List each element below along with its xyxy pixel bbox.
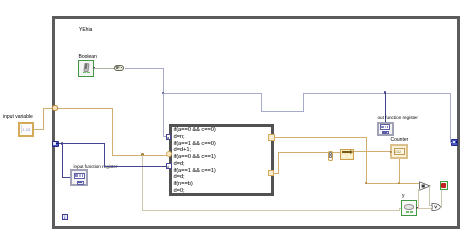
- out function register label: [378, 115, 418, 120]
- wire equal out down to or: [429, 186, 430, 205]
- tunnel a: [166, 134, 172, 140]
- formula node text: [174, 127, 216, 195]
- tunnel input variable (left border): [52, 105, 58, 111]
- junction SR wire: [61, 142, 64, 145]
- input variable label: [3, 115, 33, 120]
- iteration terminal i: [62, 214, 68, 220]
- wire up to counter: [399, 158, 400, 183]
- junction d corner: [365, 182, 368, 185]
- shift register right: [451, 139, 458, 146]
- conversion node: [340, 149, 354, 160]
- Boolean control terminal: [78, 60, 94, 77]
- while loop border: [52, 16, 460, 229]
- wire main top horizontal seg2: [303, 93, 451, 94]
- Counter indicator: [390, 144, 408, 159]
- shift register left: [52, 141, 59, 148]
- wire navy down to out function register: [385, 93, 386, 122]
- wire dip bottom: [261, 111, 304, 112]
- Boolean control label: [79, 55, 97, 60]
- Boolean-to-(0,1) node: [114, 65, 124, 71]
- input function register label: [74, 164, 118, 169]
- junction node A: [162, 92, 165, 95]
- wire dip down: [261, 93, 262, 111]
- formula node border: [169, 124, 274, 196]
- wire left SR to c input: [59, 143, 104, 144]
- tunnel c: [166, 163, 172, 169]
- tunnel d bottom-right: [268, 170, 275, 177]
- wire down to right shift register: [450, 93, 451, 143]
- wire dip up: [303, 93, 304, 111]
- increment node: [328, 151, 334, 161]
- wire down to input function register: [62, 143, 63, 177]
- junction out register: [384, 91, 387, 94]
- LED indicator y: [401, 200, 417, 216]
- wire branch down to formula a input: [163, 93, 164, 137]
- input function register local variable: [70, 169, 88, 186]
- wire main top horizontal seg1: [163, 93, 262, 94]
- input variable control: [18, 122, 34, 137]
- tunnel n: [166, 151, 172, 157]
- equal? comparison: [419, 181, 431, 191]
- wire input variable to tunnel: [34, 129, 43, 130]
- wire tunnel to formula n input: [58, 108, 113, 109]
- wire boolean to TF node: [94, 68, 114, 69]
- wire d bottom output: [274, 173, 278, 174]
- wire LED to OR: [417, 208, 432, 209]
- out function register local variable: [377, 122, 394, 136]
- junction n-wire: [141, 153, 144, 156]
- Counter label: [391, 138, 409, 143]
- tunnel d top-right: [268, 134, 275, 141]
- y label: [402, 194, 405, 199]
- wire down long to LED: [142, 155, 143, 211]
- label YEhia: [79, 28, 92, 33]
- or gate: [431, 203, 441, 211]
- wire big node to counter: [354, 151, 391, 152]
- junction counter branch: [398, 182, 401, 185]
- wire d top output: [275, 137, 367, 138]
- wire or out up to condition terminal: [440, 207, 442, 208]
- wire between nodes: [333, 152, 340, 153]
- loop condition terminal (stop): [440, 181, 449, 190]
- wire TF out vertical to junction: [163, 68, 164, 94]
- wire branch up to equal input: [418, 189, 419, 209]
- wire TF out horizontal: [125, 68, 164, 69]
